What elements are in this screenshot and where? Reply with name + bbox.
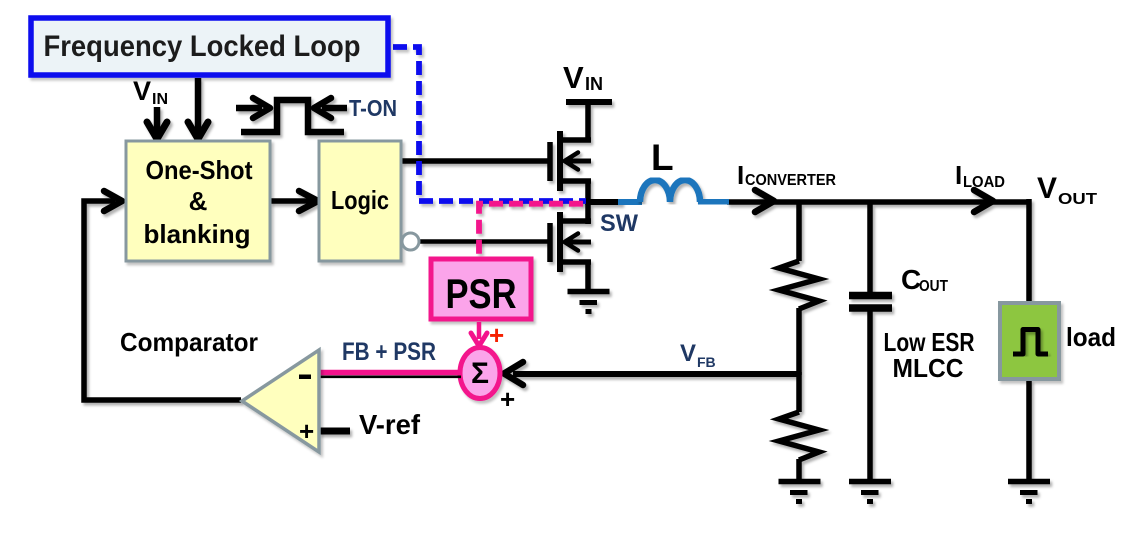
wire FLL output arrow into One-Shot (195, 78, 202, 136)
svg-text:V: V (563, 60, 584, 95)
label VIN (left input) (133, 76, 168, 108)
label VOUT (1037, 172, 1098, 208)
wire feedback comparator to One-Shot (84, 201, 241, 400)
wire inductor to VOUT corner (727, 199, 1029, 205)
summing node sigma (460, 348, 500, 399)
svg-text:+: + (489, 320, 504, 350)
svg-text:+: + (500, 384, 515, 414)
resistor R2 lower divider (796, 372, 802, 412)
pink dashed wire PSR to SW node (479, 204, 588, 257)
transistor Q2 low-side NMOS (547, 223, 553, 262)
svg-text:CONVERTER: CONVERTER (745, 172, 836, 189)
arrow T-ON left (236, 105, 262, 112)
capacitor COUT (867, 202, 873, 292)
svg-text:T-ON: T-ON (349, 95, 397, 121)
svg-text:V: V (133, 76, 151, 106)
svg-text:FB: FB (697, 354, 716, 370)
svg-text:Logic: Logic (331, 185, 389, 215)
waveform pulse icon in load (1013, 330, 1048, 355)
label VIN (top supply) (563, 60, 603, 95)
wire Logic inverted output to Q2 gate (420, 239, 549, 244)
svg-text:Σ: Σ (471, 357, 489, 390)
ground below COUT (849, 479, 891, 485)
transistor Q1 high-side NMOS (547, 142, 553, 181)
svg-text:FB + PSR: FB + PSR (342, 338, 436, 366)
svg-text:IN: IN (152, 91, 168, 108)
svg-text:V: V (680, 340, 696, 367)
label COUT (901, 264, 948, 295)
waveform T-ON pulse (241, 100, 344, 132)
svg-text:SW: SW (600, 210, 638, 237)
wire VFB from divider to sigma (513, 371, 799, 377)
wire load to ground (1026, 380, 1032, 481)
block U2 Logic (319, 141, 401, 261)
inductor L (640, 180, 729, 202)
wire blue segment SW to inductor (618, 199, 642, 205)
wire SW node to inductor (588, 199, 622, 205)
label I_CONVERTER (737, 160, 836, 190)
svg-text:load: load (1066, 322, 1116, 352)
blue dashed wire FLL to SW node (390, 47, 586, 201)
ground below Q2 (568, 289, 610, 295)
block U1 One-Shot & blanking (126, 141, 270, 261)
ground below load (1008, 479, 1050, 485)
wire pink arrow PSR to sigma (471, 322, 487, 346)
power rail VIN bar (566, 99, 612, 105)
svg-text:MLCC: MLCC (893, 353, 964, 383)
svg-text:I: I (955, 160, 962, 190)
inverter bubble on Logic lower output (402, 233, 419, 250)
block FLL (Frequency Locked Loop) (31, 18, 388, 75)
op-amp comparator (242, 350, 319, 452)
svg-text:&: & (189, 186, 208, 216)
wire V-ref stub (319, 428, 350, 435)
svg-text:Frequency Locked Loop: Frequency Locked Loop (44, 30, 361, 63)
svg-text:blanking: blanking (144, 219, 251, 249)
svg-text:OUT: OUT (919, 278, 948, 295)
svg-text:LOAD: LOAD (963, 174, 1005, 191)
block PSR (431, 259, 531, 319)
wire Logic top output to Q1 gate (401, 158, 549, 164)
svg-text:I: I (737, 160, 744, 190)
arrow I_CONVERTER (755, 190, 774, 212)
resistor R1 upper divider (796, 202, 802, 261)
wire FB+PSR from sigma to comparator (pink over black) (319, 373, 461, 377)
block load (1000, 303, 1059, 379)
arrow I_LOAD (974, 190, 993, 212)
svg-text:+: + (299, 416, 314, 446)
svg-text:PSR: PSR (446, 270, 517, 317)
svg-text:V: V (1037, 172, 1057, 205)
wire VIN arrow into One-Shot (154, 107, 161, 136)
wire VOUT corner down to load (1026, 199, 1032, 301)
svg-text:V-ref: V-ref (359, 409, 421, 440)
wire arrow One-Shot to Logic (270, 198, 312, 204)
label VFB (680, 340, 716, 370)
ground below R2 (779, 479, 821, 485)
svg-text:One-Shot: One-Shot (146, 155, 253, 185)
svg-text:OUT: OUT (1058, 191, 1098, 208)
svg-text:Comparator: Comparator (120, 327, 258, 357)
svg-text:IN: IN (585, 74, 603, 94)
arrow T-ON right (322, 105, 347, 112)
svg-text:L: L (651, 137, 674, 178)
label I_LOAD (955, 160, 1005, 191)
